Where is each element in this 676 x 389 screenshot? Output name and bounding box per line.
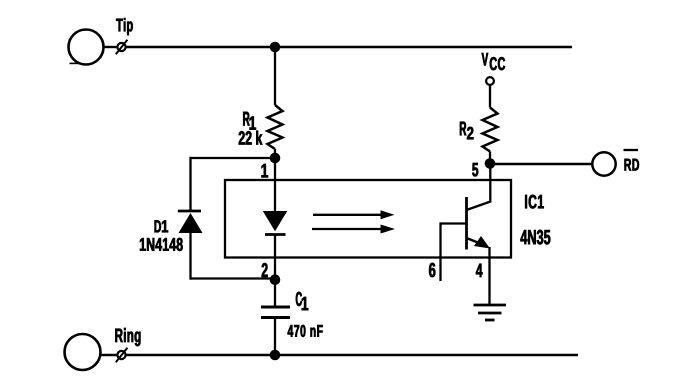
wire Tip to plug: [104, 46, 118, 48]
label RD with overline: [624, 149, 639, 151]
node 5 junction: [485, 158, 496, 169]
wire R2 to node 5: [489, 152, 491, 164]
node 2 junction: [270, 274, 281, 285]
label D1: [155, 220, 168, 232]
terminal Tip: [69, 30, 104, 65]
light arrow 1: [313, 214, 383, 216]
wire LED cathode to node 2: [274, 235, 276, 280]
label R2: [460, 122, 473, 140]
wire node 2 to C1: [274, 280, 276, 308]
ground: [474, 304, 507, 307]
wire node 1 to LED anode: [274, 158, 276, 211]
label 4N35: [520, 230, 550, 245]
wire D1 anode down: [189, 233, 191, 280]
plug connector Tip: [117, 43, 125, 51]
collector: [467, 202, 491, 211]
emitter with arrow: [467, 238, 485, 245]
label 470 nF: [288, 325, 323, 337]
optocoupler body IC1: [225, 180, 511, 258]
wire C1 to bottom rail: [274, 318, 276, 356]
label pin 2: [262, 263, 268, 277]
capacitor C1: [261, 306, 290, 309]
transistor base bar: [465, 197, 468, 250]
diode D1: [178, 210, 201, 213]
base wire pin 6: [441, 222, 467, 224]
label pin 1: [261, 164, 268, 177]
label Ring: [115, 328, 140, 346]
label Vcc: [482, 53, 505, 70]
label Tip: [116, 18, 132, 35]
label pin 5: [472, 163, 478, 176]
wire bottom rail: [126, 354, 578, 357]
junction node Ring/C1: [270, 350, 281, 361]
wire R1 to node 1: [274, 149, 276, 158]
wire D1 to node 2: [191, 277, 276, 279]
wire top rail: [126, 46, 572, 49]
stray mark at Tip circle: [70, 62, 81, 64]
label IC1: [525, 195, 543, 209]
light arrow 2: [312, 228, 383, 230]
label 22 k: [239, 131, 263, 145]
wire node 5 to RD: [490, 163, 592, 165]
label pin 4: [476, 264, 483, 277]
label pin 6: [429, 263, 435, 277]
terminal RD: [592, 152, 615, 175]
label R1: [243, 112, 256, 130]
Vcc terminal: [486, 77, 494, 85]
wire node 1 to D1: [191, 157, 276, 159]
plug connector Ring: [117, 351, 125, 359]
label RD: [625, 159, 639, 171]
wire junction to R1: [274, 47, 276, 105]
junction node Tip/R1: [270, 42, 281, 53]
resistor R2: [483, 108, 498, 152]
wire D1 cathode: [189, 157, 191, 211]
LED inside IC1: [263, 211, 288, 231]
label C1: [296, 292, 308, 310]
wire Ring to plug: [101, 354, 118, 356]
terminal Ring: [65, 334, 101, 370]
node 1 junction: [270, 153, 281, 164]
label 1N4148: [140, 238, 183, 251]
resistor R1: [268, 105, 283, 149]
wire Vcc to R2: [489, 85, 491, 108]
